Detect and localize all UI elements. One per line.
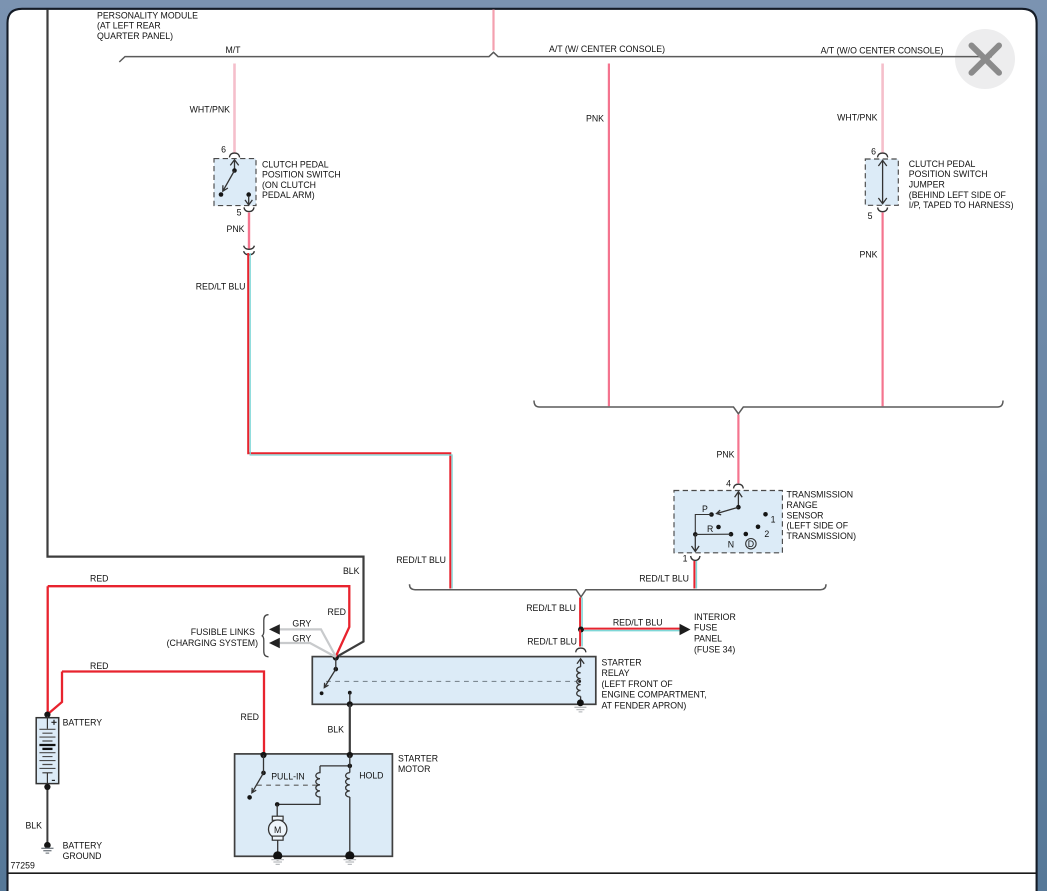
battery internal stem [46,716,48,729]
pull-in coil bottom wire [277,796,320,804]
relay coil tap dot [578,680,581,683]
svg-text:PERSONALITY MODULE: PERSONALITY MODULE [97,10,198,20]
svg-text:5: 5 [237,208,242,218]
sensor pivot node [736,505,741,510]
svg-text:BATTERY: BATTERY [63,718,103,728]
pin 5 connector [244,207,254,211]
svg-text:RED/LT BLU: RED/LT BLU [613,617,663,627]
contact D node [744,532,749,537]
relay contact node [320,691,324,695]
svg-text:PNK: PNK [586,113,604,123]
hold coil L3 [346,773,350,797]
wire PNK below jumper [881,213,883,407]
battery minus symbol [52,779,55,781]
transmission range sensor [674,491,782,553]
hold ground node [345,851,354,860]
wire PNK below switch [248,213,250,249]
wire BLK relay to starter motor [349,704,351,754]
svg-text:AT FENDER APRON): AT FENDER APRON) [602,700,687,710]
battery ground node [44,842,51,849]
diagram bottom border [8,872,1036,874]
pin 4 connector [734,484,744,488]
motor ground node [273,851,282,860]
pull-in coil L2 [316,766,320,797]
battery plates [39,729,55,741]
svg-text:(ON CLUTCH: (ON CLUTCH [262,180,316,190]
svg-text:RED: RED [328,607,346,617]
svg-text:RED: RED [90,661,108,671]
contact 2 node [756,525,761,530]
circled D marker [746,539,756,549]
contact P node [709,512,714,517]
sensor wiper arm [717,507,739,515]
svg-text:(AT LEFT REAR: (AT LEFT REAR [97,21,161,31]
battery negative tee [42,773,52,784]
svg-text:RANGE: RANGE [787,500,818,510]
svg-text:TRANSMISSION: TRANSMISSION [787,490,854,500]
pin 1 terminal arrow [692,534,700,551]
svg-text:CLUTCH PEDAL: CLUTCH PEDAL [909,159,976,169]
inline connector C100 [244,246,255,255]
svg-text:R: R [707,524,713,534]
splice S2 (A/T branches join) [534,401,1003,414]
contact 1 node [763,512,768,517]
relay contact dashed link [326,680,576,682]
svg-text:4: 4 [726,478,731,488]
svg-text:RED/LT BLU: RED/LT BLU [196,282,246,292]
svg-text:2: 2 [764,529,769,539]
relay output contact node [348,691,352,695]
contact R node [716,525,721,530]
svg-text:RED: RED [90,574,108,584]
contact N node [729,532,734,537]
motor brush bottom [272,836,283,840]
battery plus symbol [51,720,56,725]
internal wire junction to N [695,533,731,535]
battery negative node [44,784,50,790]
motor armature [269,820,287,838]
svg-text:BLK: BLK [25,821,42,831]
close button X glyph [972,46,1000,73]
ground G4 [344,860,357,865]
svg-text:M: M [274,825,281,835]
wire PNK to range sensor [737,415,739,484]
svg-text:PNK: PNK [860,250,878,260]
splice S1 (M/T | A/T distribution) [119,52,992,62]
svg-text:(LEFT FRONT OF: (LEFT FRONT OF [602,679,673,689]
wire PNK A/T w-console branch [608,64,610,407]
wire RED/LT BLU from connector to splice S3 [248,253,450,589]
svg-text:M/T: M/T [225,45,241,55]
wire BLK battery ground [46,790,48,843]
switch pivot node [232,168,237,173]
starter motor M1 [235,754,393,856]
svg-text:GROUND: GROUND [63,851,102,861]
svg-text:1: 1 [683,554,688,564]
wire RED battery to starter [48,586,264,754]
svg-text:PNK: PNK [227,224,245,234]
svg-text:BATTERY: BATTERY [63,841,103,851]
svg-text:1: 1 [771,514,776,524]
svg-text:BLK: BLK [343,566,360,576]
splice S3 (RED/LT BLU join) [410,584,827,597]
svg-text:I/P, TAPED TO HARNESS): I/P, TAPED TO HARNESS) [909,200,1014,210]
clutch pedal position switch jumper [865,159,898,205]
svg-text:(FUSE 34): (FUSE 34) [694,644,735,654]
svg-text:RELAY: RELAY [602,668,630,678]
svg-text:P: P [702,504,708,514]
jumper pin 5 connector [878,208,888,212]
svg-text:RED/LT BLU: RED/LT BLU [527,636,577,646]
clutch pedal position switch S2 [214,159,256,206]
pull-in tap node [348,764,353,769]
wire GRY fusible link 1 [280,629,336,656]
svg-text:A/T (W/O CENTER CONSOLE): A/T (W/O CENTER CONSOLE) [821,46,944,56]
svg-text:RED: RED [241,712,259,722]
relay output junction node [347,701,353,707]
node A junction [578,627,584,633]
svg-text:(CHARGING SYSTEM): (CHARGING SYSTEM) [167,638,258,648]
solenoid switch arm [252,755,264,793]
close button circle [955,29,1015,89]
battery positive node [44,712,50,718]
svg-text:INTERIOR: INTERIOR [694,612,736,622]
pull-in coil top wire [320,765,350,767]
svg-text:POSITION SWITCH: POSITION SWITCH [909,169,988,179]
hold coil wire upper [349,755,351,773]
svg-text:PANEL: PANEL [694,634,722,644]
battery B1 [36,718,59,784]
svg-text:FUSE: FUSE [694,623,718,633]
hold coil feed node [347,752,353,758]
svg-text:CLUTCH PEDAL: CLUTCH PEDAL [262,159,329,169]
svg-text:BLK: BLK [327,725,344,735]
svg-text:QUARTER PANEL): QUARTER PANEL) [97,31,173,41]
relay pin connector [576,648,586,652]
jumper pin 6 connector [878,153,888,157]
wire WHT/PNK M/T branch [233,64,236,153]
relay switch arm [324,658,336,688]
ground G3 [271,860,284,865]
svg-text:GRY: GRY [292,633,311,643]
relay coil arrow [577,659,584,667]
relay output wire [349,693,351,705]
relay coil L1 [577,667,581,703]
wire RED battery feed upper [48,586,350,656]
svg-text:JUMPER: JUMPER [909,180,945,190]
relay coil ground node [577,699,584,706]
svg-text:STARTER: STARTER [398,754,438,764]
switch arm [223,171,235,192]
solenoid switch pivot node [261,771,266,776]
motor feed wire [276,804,278,816]
off-page arrow to fuse panel [680,624,691,636]
internal wire P to output [695,515,711,535]
wire WHT/PNK A/T w/o-console branch [881,64,884,153]
svg-text:RED/LT BLU: RED/LT BLU [396,555,446,565]
svg-text:6: 6 [221,144,226,154]
wire RED/LT BLU splice to node [579,598,581,630]
relay input node [333,654,339,660]
svg-text:STARTER: STARTER [602,658,642,668]
svg-text:77259: 77259 [11,861,35,871]
svg-text:POSITION SWITCH: POSITION SWITCH [262,170,341,180]
wire RED/LT BLU to interior fuse panel [584,628,680,630]
pin 5 contact node [246,192,251,197]
svg-text:ENGINE COMPARTMENT,: ENGINE COMPARTMENT, [602,690,707,700]
relay switch pivot node [334,667,339,672]
switch contact node [219,192,224,197]
motor brush top [272,816,283,820]
motor feed node [275,802,280,807]
svg-text:(LEFT SIDE OF: (LEFT SIDE OF [787,521,849,531]
svg-text:PEDAL ARM): PEDAL ARM) [262,190,315,200]
starter relay [312,657,596,705]
svg-text:6: 6 [871,146,876,156]
output junction node [693,532,698,537]
svg-text:TRANSMISSION): TRANSMISSION) [787,531,857,541]
wire BLK from personality module [48,10,364,658]
svg-text:RED/LT BLU: RED/LT BLU [639,573,689,583]
svg-text:SENSOR: SENSOR [787,510,824,520]
svg-text:GRY: GRY [292,619,311,629]
svg-text:HOLD: HOLD [359,771,383,781]
hold coil wire lower [349,797,351,856]
svg-text:A/T (W/ CENTER CONSOLE): A/T (W/ CENTER CONSOLE) [549,44,665,54]
motor input node [260,752,266,758]
wire RED/LT BLU node to relay [579,630,581,647]
svg-text:D: D [748,539,754,549]
svg-text:PNK: PNK [717,450,735,460]
svg-text:5: 5 [868,211,873,221]
pin 5 terminal arrow [245,197,252,205]
pin 6 connector [229,153,239,157]
pin 6 terminal arrow [230,160,238,171]
wire GRY fusible link 2 [280,643,336,657]
svg-text:PULL-IN: PULL-IN [271,771,305,781]
fusible link arrow 2 [269,638,280,648]
svg-text:(BEHIND LEFT SIDE OF: (BEHIND LEFT SIDE OF [909,190,1006,200]
wire PNK feed from personality module [492,10,494,51]
ground G2 [41,848,53,853]
fusible links brace [262,615,269,657]
wire RED/LT BLU sensor to splice S3 [693,561,695,589]
ground G1 [574,707,586,712]
svg-text:RED/LT BLU: RED/LT BLU [526,603,576,613]
jumper wire arrows [878,160,886,203]
svg-text:N: N [728,539,734,549]
motor ground wire [277,840,279,856]
svg-text:WHT/PNK: WHT/PNK [190,105,231,115]
solenoid dashed link [257,784,318,786]
pin 4 terminal arrow [735,492,743,508]
svg-text:WHT/PNK: WHT/PNK [837,113,878,123]
fusible link arrow 1 [269,624,280,634]
solenoid contact node [247,795,252,800]
svg-text:MOTOR: MOTOR [398,764,430,774]
svg-text:FUSIBLE LINKS: FUSIBLE LINKS [191,627,255,637]
pin 1 connector [691,556,700,560]
